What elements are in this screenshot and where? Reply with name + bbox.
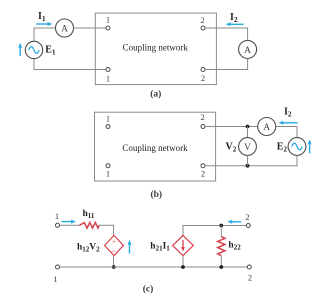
- wire: source bottom to bottom rail: [113, 256, 115, 267]
- svg-text:h22: h22: [228, 241, 241, 252]
- wire: current source bottom to rail: [182, 256, 184, 267]
- terminal 1 top (b): [106, 125, 110, 129]
- top rail right (c): [183, 226, 246, 236]
- svg-text:A: A: [263, 123, 270, 133]
- terminal 2 bottom (c): [247, 265, 251, 269]
- dependent voltage source h12V2 (diamond): [105, 235, 124, 255]
- svg-text:2: 2: [201, 73, 205, 83]
- junction node top (b): [246, 125, 250, 129]
- wire: E1 bottom to box terminal 1 bottom (a): [34, 59, 106, 70]
- svg-text:Coupling network: Coupling network: [123, 42, 189, 52]
- wire: junction to voltmeter top (b): [247, 127, 249, 138]
- ammeter A (a-left): [56, 19, 74, 37]
- svg-text:Coupling network: Coupling network: [122, 143, 188, 153]
- terminal 2 top (b): [201, 125, 205, 129]
- terminal 2 bottom (b): [201, 164, 205, 168]
- svg-text:(a): (a): [150, 89, 161, 100]
- svg-text:+: +: [112, 238, 116, 246]
- svg-text:−: −: [111, 246, 116, 256]
- junction node bottom (b): [246, 164, 250, 168]
- svg-text:1: 1: [106, 14, 110, 24]
- voltmeter V (b): [239, 138, 257, 156]
- wire: ammeter to box terminal 1 top (a): [74, 27, 107, 29]
- svg-text:h12V2: h12V2: [77, 243, 100, 254]
- source E2: [288, 138, 306, 156]
- svg-text:E1: E1: [45, 45, 56, 57]
- resistor h11: [80, 223, 100, 229]
- terminal 1 bottom (a): [106, 68, 110, 72]
- svg-text:1: 1: [106, 74, 110, 84]
- terminal 2 bottom (a): [201, 68, 205, 72]
- wire: terminal 2 top to ammeter (b): [205, 126, 258, 128]
- bottom rail (c): [60, 266, 248, 268]
- terminal 2 top (a): [201, 26, 205, 30]
- coupling network box (b): [95, 112, 216, 181]
- current arrow I1 (c): [62, 221, 72, 223]
- svg-text:V: V: [244, 143, 251, 153]
- terminal 1 top (c): [56, 223, 60, 227]
- svg-text:(b): (b): [150, 189, 162, 200]
- svg-text:1: 1: [106, 169, 110, 179]
- current arrow I2 (c): [232, 221, 242, 223]
- svg-text:2: 2: [200, 112, 204, 122]
- svg-text:1: 1: [106, 114, 110, 124]
- svg-text:V2: V2: [226, 141, 237, 153]
- ammeter A (b): [258, 118, 276, 136]
- svg-text:A: A: [61, 24, 68, 34]
- wire: resistor h11 to dependent source top: [99, 225, 114, 235]
- wire: E1 top to ammeter A (a-left): [34, 28, 56, 42]
- svg-text:2: 2: [201, 169, 205, 179]
- svg-text:h21I1: h21I1: [150, 242, 170, 253]
- current arrow I1: [36, 23, 48, 25]
- svg-text:h11: h11: [83, 209, 95, 220]
- svg-text:E2: E2: [277, 141, 288, 153]
- polarity arrow up (E1): [19, 47, 21, 56]
- terminal 1 top (a): [106, 26, 110, 30]
- svg-text:A: A: [244, 46, 251, 56]
- svg-text:2: 2: [200, 15, 204, 25]
- wire: E2 bottom to terminal 2 bottom (b): [205, 155, 297, 165]
- wire: terminal 2 top to ammeter A (a-right): [205, 28, 248, 40]
- svg-text:1: 1: [55, 211, 59, 221]
- wire: terminal 1 to resistor h11: [60, 224, 80, 226]
- svg-text:2: 2: [248, 273, 252, 283]
- svg-text:I1: I1: [38, 11, 46, 23]
- polarity arrow up (h12V2): [129, 244, 131, 253]
- junction node (h21I1 bottom): [181, 265, 185, 269]
- svg-text:I2: I2: [230, 12, 238, 24]
- svg-text:(c): (c): [143, 283, 154, 294]
- junction node (h22 top): [219, 224, 223, 228]
- terminal 1 bottom (c): [56, 265, 60, 269]
- resistor h22: [218, 237, 225, 256]
- source E1: [25, 41, 42, 58]
- wire: h22 top lead: [220, 226, 222, 238]
- wire: voltmeter bottom to junction (b): [247, 155, 249, 165]
- junction node (h12V2 bottom): [112, 265, 116, 269]
- dependent current source h21I1 (diamond): [173, 235, 194, 255]
- coupling network box (a): [95, 13, 216, 85]
- svg-text:1: 1: [53, 274, 57, 284]
- current arrow I2 (a): [230, 23, 244, 25]
- svg-text:2: 2: [245, 212, 249, 222]
- polarity arrow up (E2): [309, 144, 311, 154]
- current arrow I2 (b): [283, 122, 298, 124]
- svg-text:I2: I2: [284, 106, 292, 118]
- wire: ammeter to E2 top (b): [276, 127, 297, 138]
- junction node (h22 bottom): [219, 265, 223, 269]
- wire: ammeter to terminal 2 bottom (a-right): [205, 58, 248, 69]
- wire: h22 bottom lead: [220, 256, 222, 267]
- terminal 2 top (c): [246, 224, 250, 228]
- terminal 1 bottom (b): [106, 164, 110, 168]
- ammeter A (a-right): [239, 40, 257, 58]
